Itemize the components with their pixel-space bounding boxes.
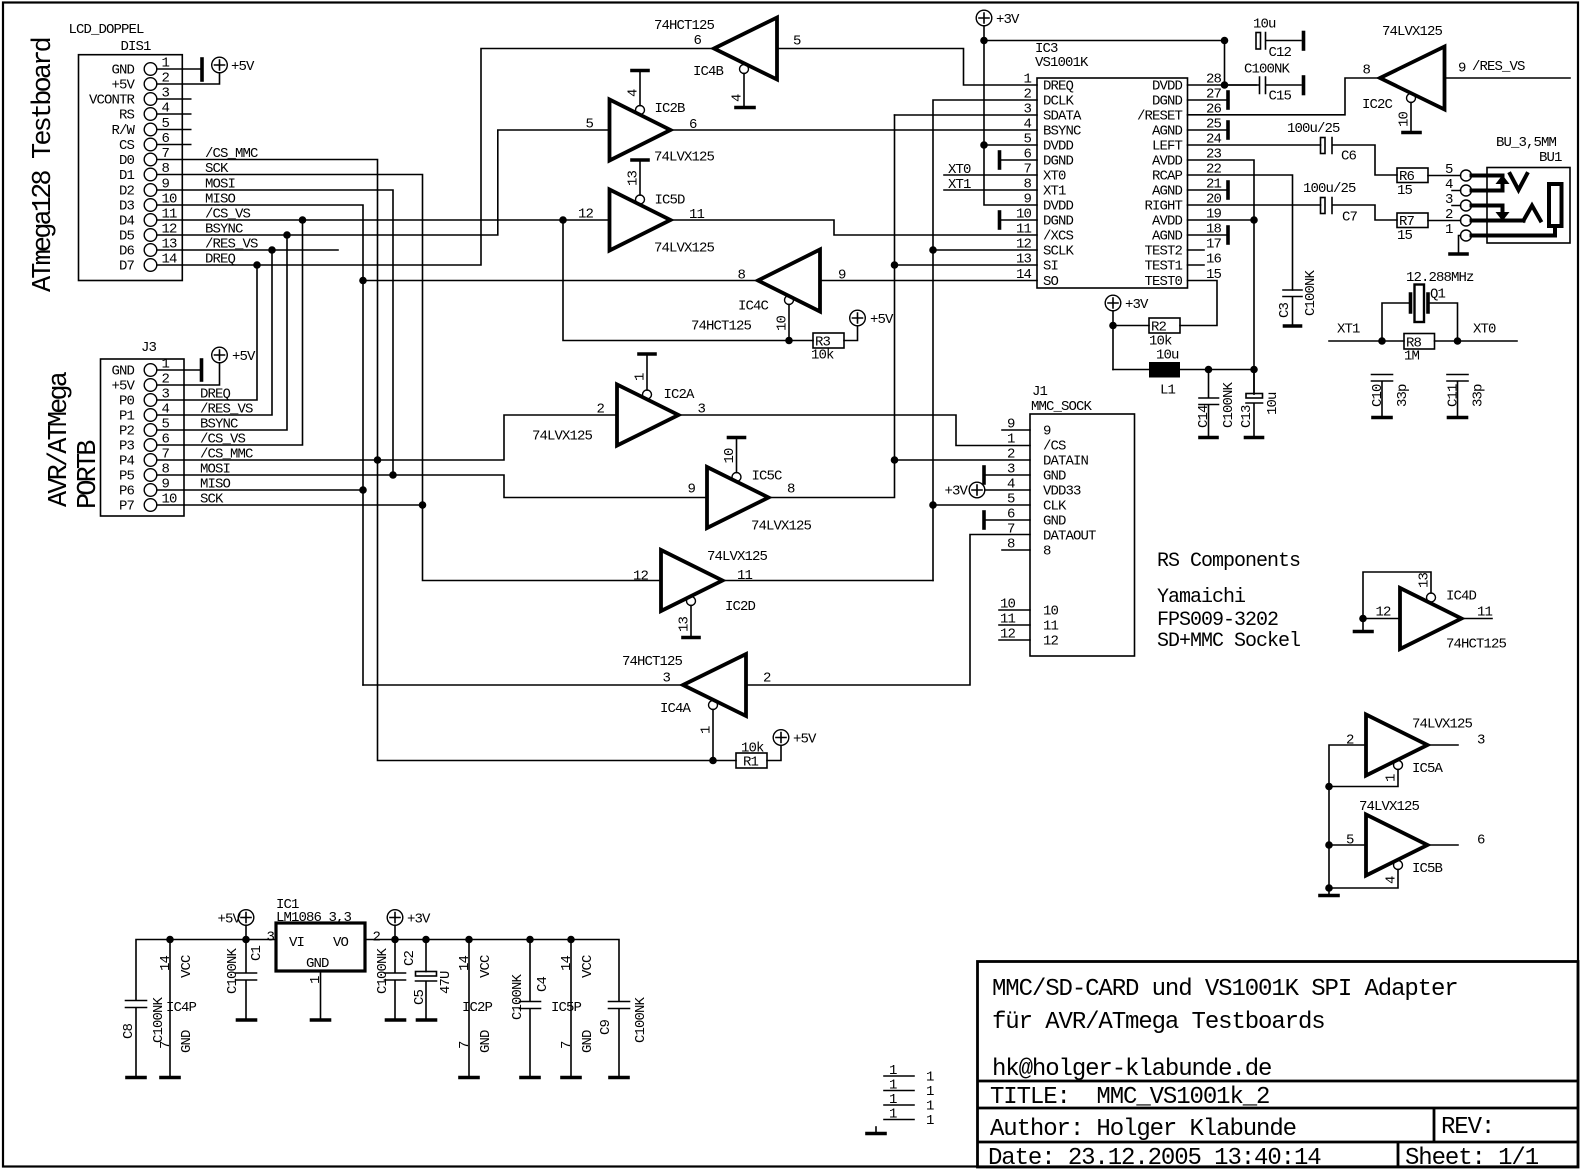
ground C12 [1302, 33, 1306, 50]
svg-text:AVDD: AVDD [1152, 154, 1183, 170]
svg-text:/RES_VS: /RES_VS [1472, 59, 1525, 75]
svg-text:C100NK: C100NK [510, 973, 526, 1020]
svg-text:C100NK: C100NK [225, 947, 241, 994]
svg-text:RS: RS [119, 108, 135, 124]
svg-text:14: 14 [457, 955, 473, 971]
power +3V R2 [1105, 295, 1149, 369]
svg-text:14: 14 [158, 955, 174, 971]
svg-text:für AVR/ATmega Testboards: für AVR/ATmega Testboards [992, 1009, 1325, 1036]
ground IC2P [460, 1076, 478, 1080]
svg-text:C9: C9 [598, 1019, 614, 1035]
svg-text:74LVX125: 74LVX125 [654, 241, 715, 257]
svg-text:IC5C: IC5C [752, 469, 783, 485]
ground C14 [1200, 436, 1217, 440]
svg-text:IC4A: IC4A [660, 701, 692, 717]
ground IC2C enable pin10 [1397, 103, 1421, 133]
power +3V VO [387, 910, 431, 940]
wire /RES_VS net [182, 250, 338, 415]
svg-text:74LVX125: 74LVX125 [1359, 799, 1420, 815]
svg-text:1: 1 [1384, 774, 1400, 782]
svg-text:C100NK: C100NK [1303, 269, 1319, 316]
svg-text:33p: 33p [1471, 384, 1487, 407]
crystal Q1 12.288MHz [1382, 270, 1474, 341]
svg-text:11: 11 [162, 207, 178, 223]
svg-text:DVDD: DVDD [1043, 199, 1074, 215]
ground IC2B enable pin4 [626, 71, 649, 106]
svg-text:REV:: REV: [1441, 1114, 1494, 1141]
connector BU1 BU_3,5MM jack [1445, 135, 1570, 243]
svg-text:3: 3 [1477, 733, 1485, 749]
wire /CS_MMC net [182, 160, 713, 761]
capacitor C15 C100NK [1225, 62, 1302, 105]
svg-text:SI: SI [1043, 259, 1058, 275]
svg-text:D2: D2 [119, 184, 135, 200]
svg-text:XT1: XT1 [948, 177, 971, 193]
svg-text:14: 14 [1016, 267, 1032, 283]
svg-text:9: 9 [687, 482, 695, 498]
svg-text:12: 12 [1043, 634, 1059, 650]
power pins IC2P [457, 940, 494, 1077]
svg-text:100u/25: 100u/25 [1287, 121, 1340, 137]
svg-text:10: 10 [775, 315, 791, 331]
svg-text:RIGHT: RIGHT [1144, 199, 1182, 215]
svg-text:+3V: +3V [944, 484, 968, 500]
svg-text:+5V: +5V [217, 912, 241, 928]
capacitor C13 10u [1239, 370, 1281, 437]
svg-text:C3: C3 [1277, 302, 1293, 318]
svg-text:9: 9 [162, 477, 170, 493]
svg-text:ATmega128 Testboard: ATmega128 Testboard [29, 39, 59, 292]
ground J1 pin6 [984, 512, 1030, 528]
capacitor C7 100u/25 [1303, 181, 1397, 226]
svg-text:3: 3 [662, 671, 670, 687]
svg-text:DGND: DGND [1152, 94, 1183, 110]
wire IC3 pin17 pin16 stubs [1188, 250, 1205, 265]
wire IC2C in /RES_VS [1445, 59, 1571, 78]
svg-text:9: 9 [1043, 424, 1051, 440]
wire IC3 XT0 stub [944, 162, 1037, 178]
svg-text:10: 10 [162, 192, 178, 208]
svg-text:MMC/SD-CARD und VS1001K SPI Ad: MMC/SD-CARD und VS1001K SPI Adapter [992, 976, 1458, 1003]
svg-text:P4: P4 [119, 454, 135, 470]
wire DREQ net [182, 49, 714, 401]
ground IC3 pin27 DGND [1188, 92, 1229, 108]
svg-text:IC5D: IC5D [655, 193, 686, 209]
wire IC3 pin20 RIGHT [1188, 204, 1321, 206]
svg-text:PORTB: PORTB [74, 440, 104, 509]
svg-text:1: 1 [926, 1113, 934, 1129]
wire /CS_VS net [182, 220, 789, 445]
svg-text:TEST2: TEST2 [1144, 244, 1182, 260]
svg-text:1: 1 [162, 56, 170, 72]
svg-text:C11: C11 [1446, 384, 1462, 407]
svg-text:D3: D3 [119, 199, 135, 215]
svg-text:+3V: +3V [407, 912, 431, 928]
wire IC4B in from IC3 DREQ [777, 49, 1037, 86]
svg-text:2: 2 [373, 930, 381, 946]
svg-text:13: 13 [1417, 572, 1433, 588]
svg-text:2: 2 [596, 402, 604, 418]
wire DIS1 stub pins 3-6 [182, 99, 190, 145]
svg-text:100u/25: 100u/25 [1303, 181, 1356, 197]
svg-text:4: 4 [1384, 876, 1400, 884]
svg-text:J3: J3 [141, 340, 157, 356]
svg-text:Author: Holger Klabunde: Author: Holger Klabunde [990, 1116, 1296, 1143]
ground IC4D [1355, 615, 1373, 632]
svg-text:XT0: XT0 [1043, 169, 1066, 185]
wire IC3 XT1 stub [944, 177, 1037, 193]
svg-text:Sheet: 1/1: Sheet: 1/1 [1405, 1145, 1539, 1172]
node RS Components note [1157, 550, 1300, 653]
svg-text:7: 7 [559, 1041, 575, 1049]
buffer IC4A 74HCT125 [622, 654, 771, 717]
power +5V R1 [773, 730, 817, 748]
resistor R2 10k [1113, 318, 1180, 350]
svg-text:D4: D4 [119, 214, 135, 230]
IC U-IC3 VS1001K [1016, 41, 1222, 290]
svg-text:10u: 10u [1156, 348, 1179, 364]
svg-text:10: 10 [722, 448, 738, 464]
wire IC3 SDATA/SI/DATAIN net [895, 115, 1038, 460]
svg-text:P5: P5 [119, 469, 135, 485]
svg-text:12: 12 [633, 569, 649, 585]
svg-text:IC2D: IC2D [725, 599, 756, 615]
buffer IC4D 74HCT125 [1375, 588, 1506, 653]
svg-text:P2: P2 [119, 424, 135, 440]
connector J3 [101, 340, 185, 516]
svg-text:2: 2 [1007, 447, 1015, 463]
svg-text:C5: C5 [412, 989, 428, 1005]
ground IC1 [312, 1018, 330, 1022]
wire IC5B out stub [1428, 844, 1459, 846]
capacitor C9 C100NK [598, 996, 649, 1076]
svg-text:D5: D5 [119, 229, 135, 245]
power pins IC5P [551, 940, 596, 1077]
node spare pin stubs [884, 1063, 934, 1129]
svg-text:9: 9 [1458, 61, 1466, 77]
svg-text:LCD_DOPPEL: LCD_DOPPEL [69, 22, 145, 38]
svg-text:7: 7 [162, 447, 170, 463]
svg-text:13: 13 [677, 616, 693, 632]
svg-text:C100NK: C100NK [151, 996, 167, 1043]
ground IC4P [161, 1076, 179, 1080]
svg-text:IC5A: IC5A [1412, 761, 1444, 777]
ground IC5A/IC5B tie [1320, 894, 1338, 898]
node title text [988, 976, 1539, 1172]
svg-text:/RESET: /RESET [1137, 109, 1183, 125]
svg-text:17: 17 [1206, 237, 1222, 253]
svg-text:4: 4 [162, 402, 170, 418]
wire IC3 pin15 TEST0 to R2 [1180, 281, 1217, 326]
wire IC3 pin23/19 AVDD rail [1188, 160, 1255, 394]
svg-text:6: 6 [162, 432, 170, 448]
svg-text:VO: VO [333, 935, 349, 951]
svg-text:AGND: AGND [1152, 184, 1183, 200]
wire IC5 tie rail [1329, 745, 1366, 894]
svg-text:hk@holger-klabunde.de: hk@holger-klabunde.de [992, 1056, 1271, 1083]
svg-text:15: 15 [1397, 228, 1413, 244]
svg-text:11: 11 [1016, 222, 1032, 238]
wire SCK net [182, 175, 661, 581]
ground IC2D enable pin13 [677, 606, 700, 638]
svg-text:TEST1: TEST1 [1144, 259, 1182, 275]
ground C13 [1246, 436, 1263, 440]
node J3 net labels [200, 387, 253, 508]
buffer IC4C 74HCT125 [691, 250, 846, 335]
wire IC3 pin24 LEFT [1188, 144, 1321, 146]
power pins IC4P [158, 940, 197, 1077]
power +5V R3 [850, 310, 894, 328]
svg-text:12: 12 [162, 222, 178, 238]
capacitor C1 C100NK [225, 940, 265, 1020]
svg-text:VCONTR: VCONTR [89, 93, 136, 109]
ground IC3 pin21 AGND [1188, 182, 1229, 198]
wire IC3 pin26 /RESET [1188, 78, 1381, 115]
svg-text:4: 4 [626, 89, 642, 97]
capacitor C3 C100NK [1277, 269, 1319, 325]
node junction dots IC5 [1325, 783, 1333, 892]
capacitor C10 33p [1370, 375, 1411, 417]
ground IC5P [562, 1076, 580, 1080]
svg-text:13: 13 [626, 170, 642, 186]
svg-text:XT0: XT0 [1473, 322, 1496, 338]
svg-text:VCC: VCC [478, 955, 494, 978]
svg-text:10: 10 [1397, 111, 1413, 127]
svg-text:C2: C2 [402, 950, 418, 966]
svg-text:16: 16 [1206, 252, 1222, 268]
svg-text:1: 1 [889, 1107, 897, 1123]
wire IC4D out stub [1462, 618, 1493, 620]
wire J1 pin10-12 stubs [999, 610, 1030, 640]
svg-text:74LVX125: 74LVX125 [532, 429, 593, 445]
wire MOSI net [182, 190, 707, 498]
wire IC4C in from IC3 SO [820, 280, 1037, 282]
svg-text:DREQ: DREQ [1043, 79, 1074, 95]
ground IC3 pin10 DGND [1000, 212, 1038, 228]
svg-text:BSYNC: BSYNC [1043, 124, 1081, 140]
svg-text:10: 10 [1043, 604, 1059, 620]
ground J1 pin3 [984, 467, 1030, 483]
power rail +5V left [136, 940, 276, 1001]
svg-text:MMC_SOCK: MMC_SOCK [1031, 399, 1093, 415]
svg-text:1: 1 [1023, 72, 1031, 88]
svg-text:8: 8 [162, 462, 170, 478]
svg-text:14: 14 [162, 252, 178, 268]
svg-text:GND: GND [306, 956, 329, 972]
wire IC5C out to DATAIN [769, 115, 895, 498]
svg-text:3: 3 [162, 387, 170, 403]
svg-text:VCC: VCC [179, 955, 195, 978]
capacitor C14 C100NK [1196, 370, 1237, 437]
svg-text:5: 5 [1007, 492, 1015, 508]
svg-text:7: 7 [158, 1041, 174, 1049]
svg-text:10k: 10k [811, 348, 834, 364]
svg-text:33p: 33p [1395, 384, 1411, 407]
svg-text:3: 3 [266, 930, 274, 946]
svg-text:5: 5 [162, 116, 170, 132]
wire IC4C out to MISO [363, 280, 758, 282]
wire IC5A enable pin1 [1329, 770, 1400, 787]
svg-text:XT1: XT1 [1337, 322, 1360, 338]
svg-text:IC5P: IC5P [551, 1000, 582, 1016]
wire IC2B out to IC3 pin4 [671, 129, 1038, 131]
svg-text:GND: GND [1043, 514, 1066, 530]
capacitor C11 33p [1446, 375, 1487, 417]
svg-text:IC2B: IC2B [655, 101, 686, 117]
svg-text:IC2P: IC2P [462, 1000, 493, 1016]
svg-text:1: 1 [308, 976, 324, 984]
power +5V DIS1 pin2 [182, 57, 255, 84]
svg-text:9: 9 [162, 177, 170, 193]
svg-text:C100NK: C100NK [375, 947, 391, 994]
node junction dots left bus [253, 216, 793, 764]
svg-text:C8: C8 [121, 1023, 137, 1039]
svg-text:D7: D7 [119, 259, 135, 275]
power +3V top [976, 10, 1020, 28]
svg-text:GND: GND [111, 364, 134, 380]
svg-text:LEFT: LEFT [1152, 139, 1183, 155]
ground IC5C enable pin10 [722, 438, 745, 473]
svg-text:TITLE: MMC_VS1001k_2: TITLE: MMC_VS1001k_2 [990, 1084, 1269, 1111]
svg-text:DCLK: DCLK [1043, 94, 1075, 110]
svg-text:IC4B: IC4B [693, 64, 724, 80]
svg-text:IC2A: IC2A [664, 387, 696, 403]
wire IC5A out stub [1428, 744, 1459, 746]
svg-text:8: 8 [1043, 544, 1051, 560]
ground J3 pin1 [184, 360, 202, 380]
svg-text:7: 7 [162, 146, 170, 162]
ground C15 [1302, 77, 1306, 94]
svg-text:DIS1: DIS1 [121, 39, 152, 55]
wire IC5B enable pin4 [1329, 870, 1400, 889]
svg-text:1: 1 [699, 726, 715, 734]
svg-text:8: 8 [162, 161, 170, 177]
svg-text:4: 4 [162, 101, 170, 117]
wire IC5D out to IC3 pin11 [671, 220, 1038, 235]
svg-text:C13: C13 [1239, 405, 1255, 428]
wire IC4C enable pin10 [775, 305, 791, 341]
buffer IC5B 74LVX125 [1346, 799, 1485, 877]
svg-text:VCC: VCC [580, 955, 596, 978]
svg-text:VI: VI [289, 935, 304, 951]
svg-text:4: 4 [730, 94, 746, 102]
svg-text:11: 11 [737, 568, 753, 584]
svg-text:AVDD: AVDD [1152, 214, 1183, 230]
svg-text:C12: C12 [1269, 45, 1292, 61]
svg-text:R1: R1 [743, 755, 759, 771]
svg-text:5: 5 [162, 417, 170, 433]
svg-text:5: 5 [793, 34, 801, 50]
svg-text:C1: C1 [249, 945, 265, 961]
svg-text:74HCT125: 74HCT125 [691, 319, 752, 335]
svg-text:11: 11 [1043, 619, 1059, 635]
svg-text:2: 2 [763, 671, 771, 687]
power +3V J1 pin4 [944, 482, 1030, 499]
svg-text:C4: C4 [535, 976, 551, 992]
svg-text:6: 6 [1477, 833, 1485, 849]
svg-text:AGND: AGND [1152, 229, 1183, 245]
wire IC4A out to MISO [363, 684, 683, 686]
svg-text:8: 8 [787, 482, 795, 498]
svg-text:IC4C: IC4C [738, 299, 769, 315]
svg-text:GND: GND [179, 1030, 195, 1053]
svg-text:DATAIN: DATAIN [1043, 454, 1089, 470]
svg-text:C100NK: C100NK [1221, 381, 1237, 428]
ground C4 [521, 1076, 539, 1080]
svg-text:SCLK: SCLK [1043, 244, 1075, 260]
svg-text:8: 8 [1362, 63, 1370, 79]
ground IC4B enable pin4 [730, 74, 755, 108]
svg-text:1: 1 [1445, 222, 1453, 238]
svg-text:Yamaichi: Yamaichi [1157, 586, 1245, 609]
svg-text:C100NK: C100NK [633, 996, 649, 1043]
svg-text:R/W: R/W [111, 123, 135, 139]
svg-text:RS Components: RS Components [1157, 550, 1300, 573]
svg-text:GND: GND [1043, 469, 1066, 485]
svg-text:1: 1 [633, 373, 649, 381]
svg-text:74LVX125: 74LVX125 [654, 150, 715, 166]
svg-text:+5V: +5V [231, 59, 255, 75]
svg-text:D6: D6 [119, 244, 135, 260]
svg-text:VS1001K: VS1001K [1035, 55, 1089, 71]
connector J1 MMC_SOCK [1000, 384, 1135, 656]
wire IC3 pin22 RCAP [1188, 175, 1293, 290]
svg-text:AGND: AGND [1152, 124, 1183, 140]
svg-text:C100NK: C100NK [1244, 62, 1291, 78]
svg-text:GND: GND [580, 1030, 596, 1053]
resistor R7 15 [1397, 213, 1461, 244]
svg-text:IC5B: IC5B [1412, 861, 1443, 877]
svg-text:Q1: Q1 [1430, 287, 1446, 303]
inductor L1 10u [1113, 348, 1254, 399]
svg-text:15: 15 [1397, 183, 1413, 199]
svg-text:74LVX125: 74LVX125 [751, 519, 812, 535]
ground IC3 pin25 AGND [1188, 122, 1229, 138]
wire IC2A out to J1 pin1 [679, 415, 1031, 446]
ground IC2A enable pin1 [633, 354, 656, 390]
wire IC2D out to SCLK riser [723, 580, 934, 582]
wire BSYNC net [182, 130, 609, 430]
svg-text:74LVX125: 74LVX125 [707, 549, 768, 565]
ground C9 [610, 1076, 628, 1080]
buffer IC5D 74LVX125 [578, 190, 715, 257]
svg-text:2: 2 [1445, 207, 1453, 223]
svg-text:/CS: /CS [1043, 439, 1066, 455]
node junction dots power rail [166, 936, 575, 944]
svg-text:IC4P: IC4P [166, 1000, 197, 1016]
ground C2 [387, 1018, 405, 1022]
svg-text:10k: 10k [741, 741, 764, 757]
ground [867, 1127, 885, 1134]
buffer IC5C 74LVX125 [687, 467, 811, 535]
svg-text:3: 3 [162, 86, 170, 102]
svg-text:D1: D1 [119, 168, 135, 184]
svg-text:BU_3,5MM: BU_3,5MM [1496, 135, 1557, 151]
svg-text:7: 7 [1007, 522, 1015, 538]
svg-text:74LVX125: 74LVX125 [1412, 717, 1473, 733]
svg-text:FPS009-3202: FPS009-3202 [1157, 609, 1278, 632]
wire IC3 DVDD +3V rail [984, 26, 1256, 205]
ground C11 [1449, 416, 1467, 420]
svg-text:13: 13 [162, 237, 178, 253]
svg-text:10u: 10u [1253, 17, 1276, 33]
svg-text:5: 5 [1445, 162, 1453, 178]
svg-text:RCAP: RCAP [1152, 169, 1183, 185]
ground IC3 pin6 DGND [1000, 152, 1038, 168]
svg-text:+5V: +5V [111, 379, 135, 395]
svg-text:4: 4 [1023, 117, 1031, 133]
svg-text:XT0: XT0 [948, 162, 971, 178]
